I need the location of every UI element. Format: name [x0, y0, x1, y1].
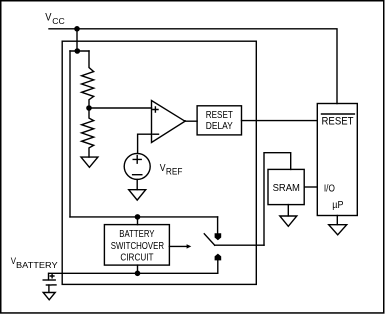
node VCC junction dot — [74, 26, 80, 32]
wire comparator output — [185, 120, 197, 123]
svg-text:V: V — [160, 162, 166, 174]
switch bottom contact — [215, 254, 222, 261]
label I/O — [324, 183, 335, 194]
svg-text:V: V — [45, 12, 52, 24]
ground below battery — [43, 293, 55, 300]
wire VREF bottom stub — [136, 179, 138, 189]
wire VREF to - input — [138, 134, 152, 153]
battery BT1 — [43, 273, 56, 292]
overline of RESET — [322, 113, 355, 115]
wire switch pole — [215, 244, 264, 246]
wire SRAM ground stub — [287, 205, 289, 216]
node IC supply dot — [75, 48, 81, 54]
wire switchover control arrow — [169, 244, 191, 248]
wire switched VOUT loop to SRAM — [264, 153, 291, 246]
wire VCC drop into IC — [76, 29, 78, 51]
resistor R1 — [82, 51, 94, 108]
svg-text:SRAM: SRAM — [273, 182, 300, 194]
wire uP ground stub — [336, 216, 338, 225]
svg-text:BATTERY: BATTERY — [119, 229, 154, 240]
IC boundary box — [62, 41, 256, 284]
svg-text:RESET: RESET — [322, 116, 354, 128]
svg-text:µP: µP — [332, 200, 343, 211]
resistor R2 — [82, 108, 94, 157]
wire internal VCC rail — [70, 216, 218, 218]
op-amp U1 comparator — [152, 101, 186, 143]
wire left vertical to switch rail — [69, 51, 71, 217]
wire SRAM to uP I/O — [304, 186, 317, 188]
ground below SRAM — [280, 216, 297, 226]
svg-text:SWITCHOVER: SWITCHOVER — [111, 241, 164, 252]
svg-text:CC: CC — [52, 16, 64, 26]
wire supply node horizontal — [70, 50, 89, 52]
box BATTERY SWITCHOVER CIRCUIT — [104, 225, 169, 266]
node battery rail tap dot — [135, 271, 141, 277]
ground below uP — [329, 225, 347, 235]
label RESET with overline — [322, 116, 354, 128]
box RESET DELAY — [197, 106, 241, 135]
wire VCC rail to uP — [49, 29, 337, 104]
wire switch bottom contact drop — [217, 260, 219, 273]
node divider tap dot — [86, 105, 92, 111]
wire rail tap to switchover box — [137, 217, 139, 225]
label uP — [332, 200, 343, 211]
svg-text:REF: REF — [166, 166, 183, 176]
label VREF — [160, 162, 183, 176]
svg-text:BATTERY: BATTERY — [16, 261, 58, 270]
ground below R2 — [81, 157, 98, 167]
svg-text:I/O: I/O — [324, 183, 335, 194]
source VREF — [124, 153, 150, 179]
switch top contact — [215, 233, 222, 240]
ground below VREF — [129, 190, 146, 200]
wire tap to comparator + input — [89, 107, 152, 109]
svg-text:CIRCUIT: CIRCUIT — [120, 253, 153, 264]
box uP microprocessor — [317, 104, 357, 216]
wire rail to switch top contact — [217, 217, 219, 234]
wire VBATTERY rail — [49, 272, 218, 274]
wire reset delay to uP RESET — [242, 120, 318, 122]
node rail tap dot — [135, 214, 141, 220]
label VCC — [45, 12, 64, 26]
label VBATTERY — [11, 256, 59, 270]
box SRAM — [268, 169, 304, 204]
wire switchover box bottom tap — [137, 265, 139, 273]
switch blade S1 — [204, 234, 214, 245]
svg-text:DELAY: DELAY — [206, 120, 233, 132]
